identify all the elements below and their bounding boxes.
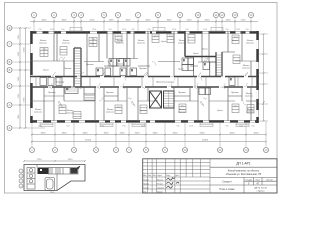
svg-text:4200: 4200 [90,20,96,22]
svg-text:ДВ ГБ Тюм А: ДВ ГБ Тюм А [254,187,267,190]
svg-text:2800: 2800 [62,133,68,135]
door swing arcs [48,57,248,105]
internal horizontal partitions upper band [30,52,258,66]
lift shaft [150,91,162,108]
svg-text:2800: 2800 [153,133,159,135]
svg-text:1210: 1210 [122,29,126,31]
svg-text:2000: 2000 [120,133,126,135]
corridor small partitions [36,77,252,88]
bottom dimension line 1 [31,134,267,136]
room labels lower band [34,82,255,115]
svg-text:Лист: Лист [256,180,260,182]
window dim texts above top wall [38,29,248,31]
stair core A treads [75,51,81,84]
svg-text:№док: №док [157,174,162,177]
svg-text:1210: 1210 [50,29,54,31]
svg-text:17.60: 17.60 [41,49,47,51]
svg-text:Прихож.: Прихож. [48,92,56,94]
svg-text:3600: 3600 [146,20,152,22]
left vertical dimension line [19,27,27,129]
page border frame [5,3,278,194]
svg-text:3600: 3600 [42,20,48,22]
svg-text:910: 910 [66,125,69,127]
right leaders [259,34,268,121]
svg-text:3400: 3400 [41,133,47,135]
svg-text:2400: 2400 [226,20,232,22]
svg-text:Кухня: Кухня [193,53,199,55]
top dimension line [30,21,258,23]
svg-text:1520: 1520 [68,159,74,161]
svg-text:3600: 3600 [62,20,68,22]
svg-text:3000: 3000 [254,133,260,135]
stair core A walls [74,48,81,87]
svg-text:С.у.: С.у. [128,98,132,100]
svg-text:910: 910 [245,29,248,31]
bottom dimension line 2 [31,141,267,143]
svg-text:С.у.: С.у. [203,98,207,100]
svg-text:Прихож.: Прихож. [86,64,94,66]
bottom leaders [32,121,266,147]
left axis circles [7,26,12,131]
bathroom cells corridor interior [40,58,235,86]
corridor lower wall [30,86,259,88]
svg-text:Сидоров: Сидоров [157,187,164,189]
kitchen sink dark [71,168,78,174]
bathroom cells right mid band [199,62,216,95]
building bottom wall [30,120,259,123]
table digits [41,35,238,109]
svg-text:910: 910 [38,29,41,31]
svg-text:1210: 1210 [239,125,243,127]
svg-text:Кухня: Кухня [140,110,146,112]
detail callout circles [19,169,23,188]
right vertical dimension line [263,33,265,122]
svg-text:комната: комната [137,43,146,45]
svg-text:Прихож.: Прихож. [139,68,147,70]
svg-text:Лист: Лист [153,175,157,177]
room area tables [40,34,254,119]
svg-text:А: А [9,126,11,130]
svg-text:Листов: Листов [266,180,273,182]
svg-text:1700: 1700 [37,159,43,161]
detail north arrow [75,166,80,171]
top dimension texts [42,20,247,22]
svg-text:Иванов: Иванов [157,179,163,181]
kitchen cabinets left column [27,168,35,190]
svg-text:Провер: Провер [143,183,149,185]
internal horizontal partitions lower band [30,96,258,101]
svg-text:1210: 1210 [189,125,193,127]
svg-text:Н.контр: Н.контр [143,187,149,189]
core C treads [217,55,222,75]
stair core B walls [164,91,175,108]
title block right grid [210,167,277,193]
svg-text:комната: комната [106,112,115,114]
svg-text:21600: 21600 [85,140,92,142]
svg-text:Прихож.: Прихож. [106,92,114,94]
building right wall [256,31,259,123]
svg-text:Прихожая-коридор: Прихожая-коридор [156,82,175,84]
top axis circles row [31,12,253,17]
svg-text:Кухня: Кухня [178,69,184,71]
svg-text:5300: 5300 [200,133,206,135]
title block outer [143,159,277,193]
svg-text:Кол: Кол [148,175,151,177]
svg-text:910: 910 [251,125,254,127]
top axis leader lines [34,18,251,31]
bathroom cells above corridor center-left [96,59,137,76]
kitchen detail dimension line [23,160,86,162]
stair core B treads [164,91,174,108]
svg-text:910: 910 [225,29,228,31]
svg-text:В: В [9,60,11,64]
svg-text:комната: комната [39,43,48,45]
svg-text:1210: 1210 [92,29,96,31]
svg-text:910: 910 [108,29,111,31]
internal vertical partitions [44,31,251,121]
kitchen detail outline [24,165,85,191]
window dim texts below bottom wall [38,125,255,127]
svg-text:Дата: Дата [175,175,179,177]
svg-text:3200: 3200 [187,20,193,22]
svg-text:1210: 1210 [141,125,145,127]
svg-text:910: 910 [131,29,134,31]
svg-text:объезная ул. Фестивальная, 7В: объезная ул. Фестивальная, 7В [226,173,262,176]
title block doc number [236,162,250,166]
svg-text:Петров: Петров [157,183,163,185]
stair core C walls [216,52,222,77]
svg-text:2400: 2400 [109,20,115,22]
svg-text:910: 910 [61,29,64,31]
door leaf diagonals [49,57,248,107]
svg-text:Секция I: Секция I [222,181,232,184]
svg-text:Кухня: Кухня [217,110,223,112]
svg-text:1210: 1210 [236,29,240,31]
svg-text:Кухня: Кухня [202,49,208,51]
bathroom cells below corridor lower-left [65,87,95,101]
svg-text:Прихож.: Прихож. [231,92,239,94]
svg-text:17.60: 17.60 [90,39,96,41]
left dimension texts [18,34,26,119]
entrance porches above top wall [70,27,223,31]
signatures [167,178,180,188]
detail interior partition [37,165,57,191]
svg-text:г. Брянск: г. Брянск [256,191,264,193]
svg-text:А: А [9,103,11,107]
svg-text:комната: комната [116,43,125,45]
svg-text:Кухня: Кухня [43,70,49,72]
svg-text:Разраб: Разраб [143,179,149,181]
left axis leaders [12,28,45,128]
svg-text:комната: комната [246,43,255,45]
svg-text:3800: 3800 [167,20,173,22]
svg-text:Утв: Утв [143,191,146,193]
bathroom hatch [66,89,94,99]
svg-text:Подп: Подп [166,175,170,177]
balconies below bottom wall [40,123,249,127]
building top wall [30,31,259,34]
svg-text:760: 760 [147,29,150,31]
detail caption [50,192,55,194]
svg-text:комната: комната [34,112,43,114]
svg-text:910: 910 [122,125,125,127]
title block grid left [143,159,210,193]
svg-text:Прихож.: Прихож. [117,64,125,66]
svg-text:Прихож.: Прихож. [178,92,186,94]
kitchen counter right [49,168,79,175]
kitchen bathtub [45,178,55,191]
svg-text:2600: 2600 [135,133,141,135]
svg-text:3300: 3300 [205,20,211,22]
svg-text:комната: комната [245,96,254,98]
top axis numbers [33,13,253,17]
svg-text:1210: 1210 [203,29,207,31]
svg-text:910: 910 [225,125,228,127]
bottom axis circles [30,148,269,153]
svg-text:910: 910 [176,125,179,127]
svg-text:Стадия: Стадия [245,180,252,182]
building left wall [30,31,33,123]
svg-text:Коридор: Коридор [56,82,65,84]
svg-text:Кухня: Кухня [232,40,238,42]
svg-text:910: 910 [185,29,188,31]
svg-text:Прихож.: Прихож. [64,68,72,70]
svg-text:Б: Б [9,84,11,88]
kitchen stove dark [38,168,49,175]
svg-text:комната: комната [178,43,187,45]
title block texts [220,170,262,192]
svg-text:1210: 1210 [100,125,104,127]
svg-text:4000: 4000 [230,133,236,135]
left axis letters [9,26,11,130]
svg-text:комната: комната [242,68,251,70]
svg-text:Кухня: Кухня [161,41,167,43]
svg-text:3000: 3000 [104,133,110,135]
bottom axis numbers [31,148,268,152]
svg-text:12400: 12400 [24,46,26,52]
corridor upper wall [30,76,259,78]
svg-text:План 1 этажа: План 1 этажа [220,188,236,191]
svg-text:ДП 1-АР1: ДП 1-АР1 [236,162,250,166]
svg-text:3000: 3000 [173,133,179,135]
svg-text:1210: 1210 [172,29,176,31]
svg-text:Козлов: Козлов [157,191,163,193]
svg-text:комната: комната [62,43,71,45]
svg-text:1210: 1210 [38,125,42,127]
svg-text:Д: Д [9,26,11,30]
room labels upper band [39,40,255,72]
svg-text:2700: 2700 [241,20,247,22]
svg-text:22800: 22800 [202,140,209,142]
svg-text:3400: 3400 [83,133,89,135]
bathroom fixtures [66,59,232,90]
svg-text:3600: 3600 [126,20,132,22]
svg-text:13600: 13600 [24,96,26,102]
svg-text:Б: Б [9,68,11,72]
apartment separation wall x185 [185,31,216,57]
